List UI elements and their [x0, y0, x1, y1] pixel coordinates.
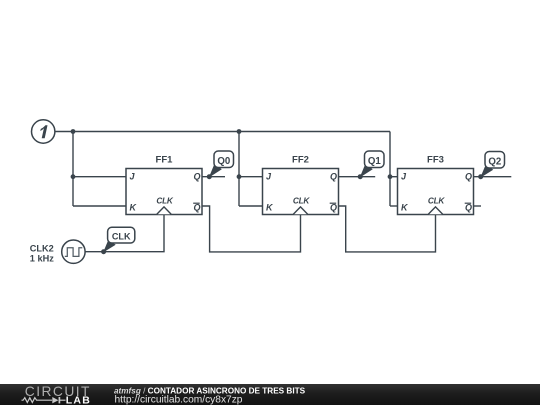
- svg-text:Q1: Q1: [368, 156, 382, 167]
- svg-text:CLK: CLK: [293, 196, 310, 206]
- wire: FF1 feed vertical: [72, 132, 74, 207]
- FF2 body: [263, 169, 339, 215]
- junction: Q0 flag attach: [207, 174, 212, 179]
- wire: FF3 feed vertical: [389, 132, 391, 207]
- FF1 body: [126, 169, 202, 215]
- wire: FF2 K input: [239, 205, 263, 207]
- flag Q2: [480, 152, 504, 178]
- FF3 pin label Qbar: [465, 202, 472, 212]
- wire: top rail from source to FF3 drop: [55, 131, 390, 133]
- wire: CLK2 to FF1 CLK: [85, 215, 164, 252]
- FF3 body: [398, 169, 474, 215]
- FF2 pin label Qbar: [330, 202, 337, 212]
- svg-text:http://circuitlab.com/cy8x7zp: http://circuitlab.com/cy8x7zp: [115, 394, 243, 405]
- svg-text:Q: Q: [193, 202, 200, 212]
- svg-text:LAB: LAB: [66, 395, 91, 405]
- wire: FF1 Qbar to FF2 CLK: [202, 206, 301, 252]
- wire: FF2 J input: [239, 176, 263, 178]
- wire: FF2 feed vertical: [238, 132, 240, 207]
- svg-text:Q: Q: [193, 172, 200, 182]
- junction: FF3 J node: [388, 174, 393, 179]
- svg-text:FF2: FF2: [292, 154, 309, 165]
- svg-text:CLK: CLK: [428, 196, 445, 206]
- clock source CLK2 1 kHz: [62, 240, 85, 263]
- svg-text:CLK: CLK: [156, 196, 173, 206]
- FF3 clock edge triangle: [428, 207, 442, 214]
- svg-text:FF1: FF1: [156, 154, 174, 165]
- footer bar: [0, 384, 540, 405]
- FF1 pin label Qbar: [193, 202, 200, 212]
- svg-text:Q2: Q2: [488, 156, 501, 167]
- svg-text:Q: Q: [465, 202, 472, 212]
- wire: FF3 J input: [390, 176, 398, 178]
- junction: FF2 J node: [237, 174, 242, 179]
- clock source value label CLK2 / 1 kHz: [30, 243, 54, 263]
- wire: FF3 Qbar stub: [474, 205, 482, 207]
- FF1 clock edge triangle: [157, 207, 171, 214]
- flag CLK: [103, 227, 135, 252]
- FF2 clock edge triangle: [293, 207, 307, 214]
- flag Q0: [209, 151, 234, 178]
- svg-text:FF3: FF3: [427, 154, 444, 165]
- wire: FF3 Q output: [474, 176, 512, 178]
- junction: top rail / FF1 feed: [71, 129, 76, 134]
- svg-text:Q0: Q0: [217, 156, 230, 167]
- junction: top rail / FF2 feed: [237, 129, 242, 134]
- wire: FF2 Qbar to FF3 CLK: [339, 206, 436, 252]
- CircuitLab logo circuit glyph (resistor + diode): [22, 397, 66, 403]
- wire: FF2 Q output: [339, 176, 376, 178]
- flip-flop FF1: [126, 154, 202, 214]
- svg-text:CLK: CLK: [112, 231, 131, 241]
- svg-text:Q: Q: [465, 172, 472, 182]
- svg-text:Q: Q: [330, 202, 337, 212]
- wire: FF1 J input: [73, 176, 126, 178]
- svg-text:1 kHz: 1 kHz: [30, 253, 54, 263]
- logic source V1 (constant 1): [32, 120, 55, 143]
- flip-flop FF3: [398, 154, 474, 214]
- wire: FF3 K input: [390, 205, 398, 207]
- junction: FF1 J node: [71, 174, 76, 179]
- wire: FF1 Q output: [202, 176, 225, 178]
- junction: Q2 flag attach: [478, 174, 483, 179]
- flip-flop FF2: [263, 154, 339, 214]
- junction: Q1 flag attach: [358, 174, 363, 179]
- svg-text:Q: Q: [330, 172, 337, 182]
- wire: FF1 K input: [73, 205, 126, 207]
- flag Q1: [360, 151, 384, 178]
- junction: CLK flag attach: [101, 249, 106, 254]
- svg-text:CLK2: CLK2: [30, 243, 54, 253]
